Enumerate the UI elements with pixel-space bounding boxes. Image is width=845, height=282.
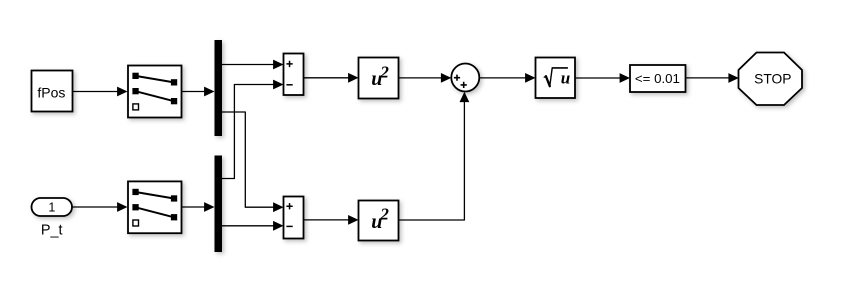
svg-text:<= 0.01: <= 0.01 [635, 71, 680, 86]
svg-text:2: 2 [379, 62, 389, 81]
svg-text:u: u [561, 69, 570, 88]
svg-text:STOP: STOP [754, 72, 791, 87]
svg-text:2: 2 [379, 204, 389, 223]
svg-text:P_t: P_t [41, 223, 63, 239]
svg-text:fPos: fPos [37, 85, 65, 101]
svg-text:1: 1 [48, 201, 55, 215]
